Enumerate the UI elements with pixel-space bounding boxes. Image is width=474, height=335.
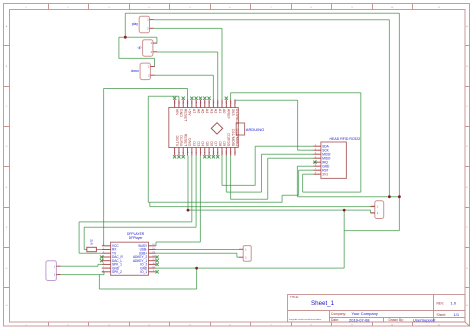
svg-text:Sheet:: Sheet: xyxy=(437,313,447,317)
svg-text:down: down xyxy=(131,69,139,73)
svg-text:D10/SS: D10/SS xyxy=(227,133,231,147)
svg-text:D4: D4 xyxy=(201,141,205,146)
svg-text:HEAD RFID RC522: HEAD RFID RC522 xyxy=(330,137,361,141)
svg-text:RESET: RESET xyxy=(183,109,187,122)
svg-text:A2: A2 xyxy=(214,109,218,114)
svg-text:3V3: 3V3 xyxy=(322,172,328,176)
svg-text:GND: GND xyxy=(179,109,183,118)
svg-text:Drawn By:: Drawn By: xyxy=(389,318,404,322)
svg-text:VIN: VIN xyxy=(175,109,179,116)
svg-text:A3: A3 xyxy=(209,109,213,114)
svg-text:Company:: Company: xyxy=(331,312,346,316)
svg-text:D1/RX: D1/RX xyxy=(179,135,183,147)
svg-text:Sheet_1: Sheet_1 xyxy=(311,300,335,307)
svg-text:A1: A1 xyxy=(218,109,222,114)
svg-text:3V3: 3V3 xyxy=(231,109,235,116)
svg-text:GND: GND xyxy=(188,138,192,147)
svg-text:A5: A5 xyxy=(201,109,205,114)
svg-text:D9: D9 xyxy=(222,141,226,146)
svg-text:+5V: +5V xyxy=(188,109,192,116)
svg-text:D2: D2 xyxy=(192,141,196,146)
svg-text:TITLE:: TITLE: xyxy=(290,295,299,299)
svg-text:A0: A0 xyxy=(222,109,226,114)
svg-text:UserSupport: UserSupport xyxy=(413,317,436,322)
svg-text:D8: D8 xyxy=(218,141,222,146)
svg-text:D0/TX: D0/TX xyxy=(175,136,179,147)
svg-text:DFPlayer: DFPlayer xyxy=(129,236,144,240)
svg-text:D7: D7 xyxy=(214,141,218,146)
svg-text:Your Company: Your Company xyxy=(352,311,378,316)
svg-text:ARDUINO: ARDUINO xyxy=(246,127,264,132)
svg-text:A7: A7 xyxy=(192,109,196,114)
svg-text:1/1: 1/1 xyxy=(454,312,460,317)
svg-text:2019-07-08: 2019-07-08 xyxy=(349,317,370,322)
svg-text:1.0: 1.0 xyxy=(451,301,457,306)
svg-text:D6: D6 xyxy=(209,141,213,146)
svg-text:D5: D5 xyxy=(205,141,209,146)
svg-text:easyeda.com/account/user/edito: easyeda.com/account/user/editor xyxy=(289,318,321,321)
svg-text:SPK_2: SPK_2 xyxy=(112,270,122,274)
svg-text:D3: D3 xyxy=(196,141,200,146)
svg-text:G: G xyxy=(6,268,8,270)
svg-text:REV:: REV: xyxy=(437,301,445,305)
svg-text:up: up xyxy=(138,46,142,50)
svg-text:A6: A6 xyxy=(196,109,200,114)
svg-text:A4: A4 xyxy=(205,109,209,114)
svg-text:IO_1: IO_1 xyxy=(140,270,147,274)
svg-text:AREF: AREF xyxy=(227,109,231,120)
svg-text:D11/MOSI: D11/MOSI xyxy=(231,129,235,146)
svg-text:G: G xyxy=(466,268,468,270)
svg-text:Date:: Date: xyxy=(331,318,339,322)
svg-text:play: play xyxy=(132,22,139,26)
svg-text:RESET: RESET xyxy=(183,134,187,147)
